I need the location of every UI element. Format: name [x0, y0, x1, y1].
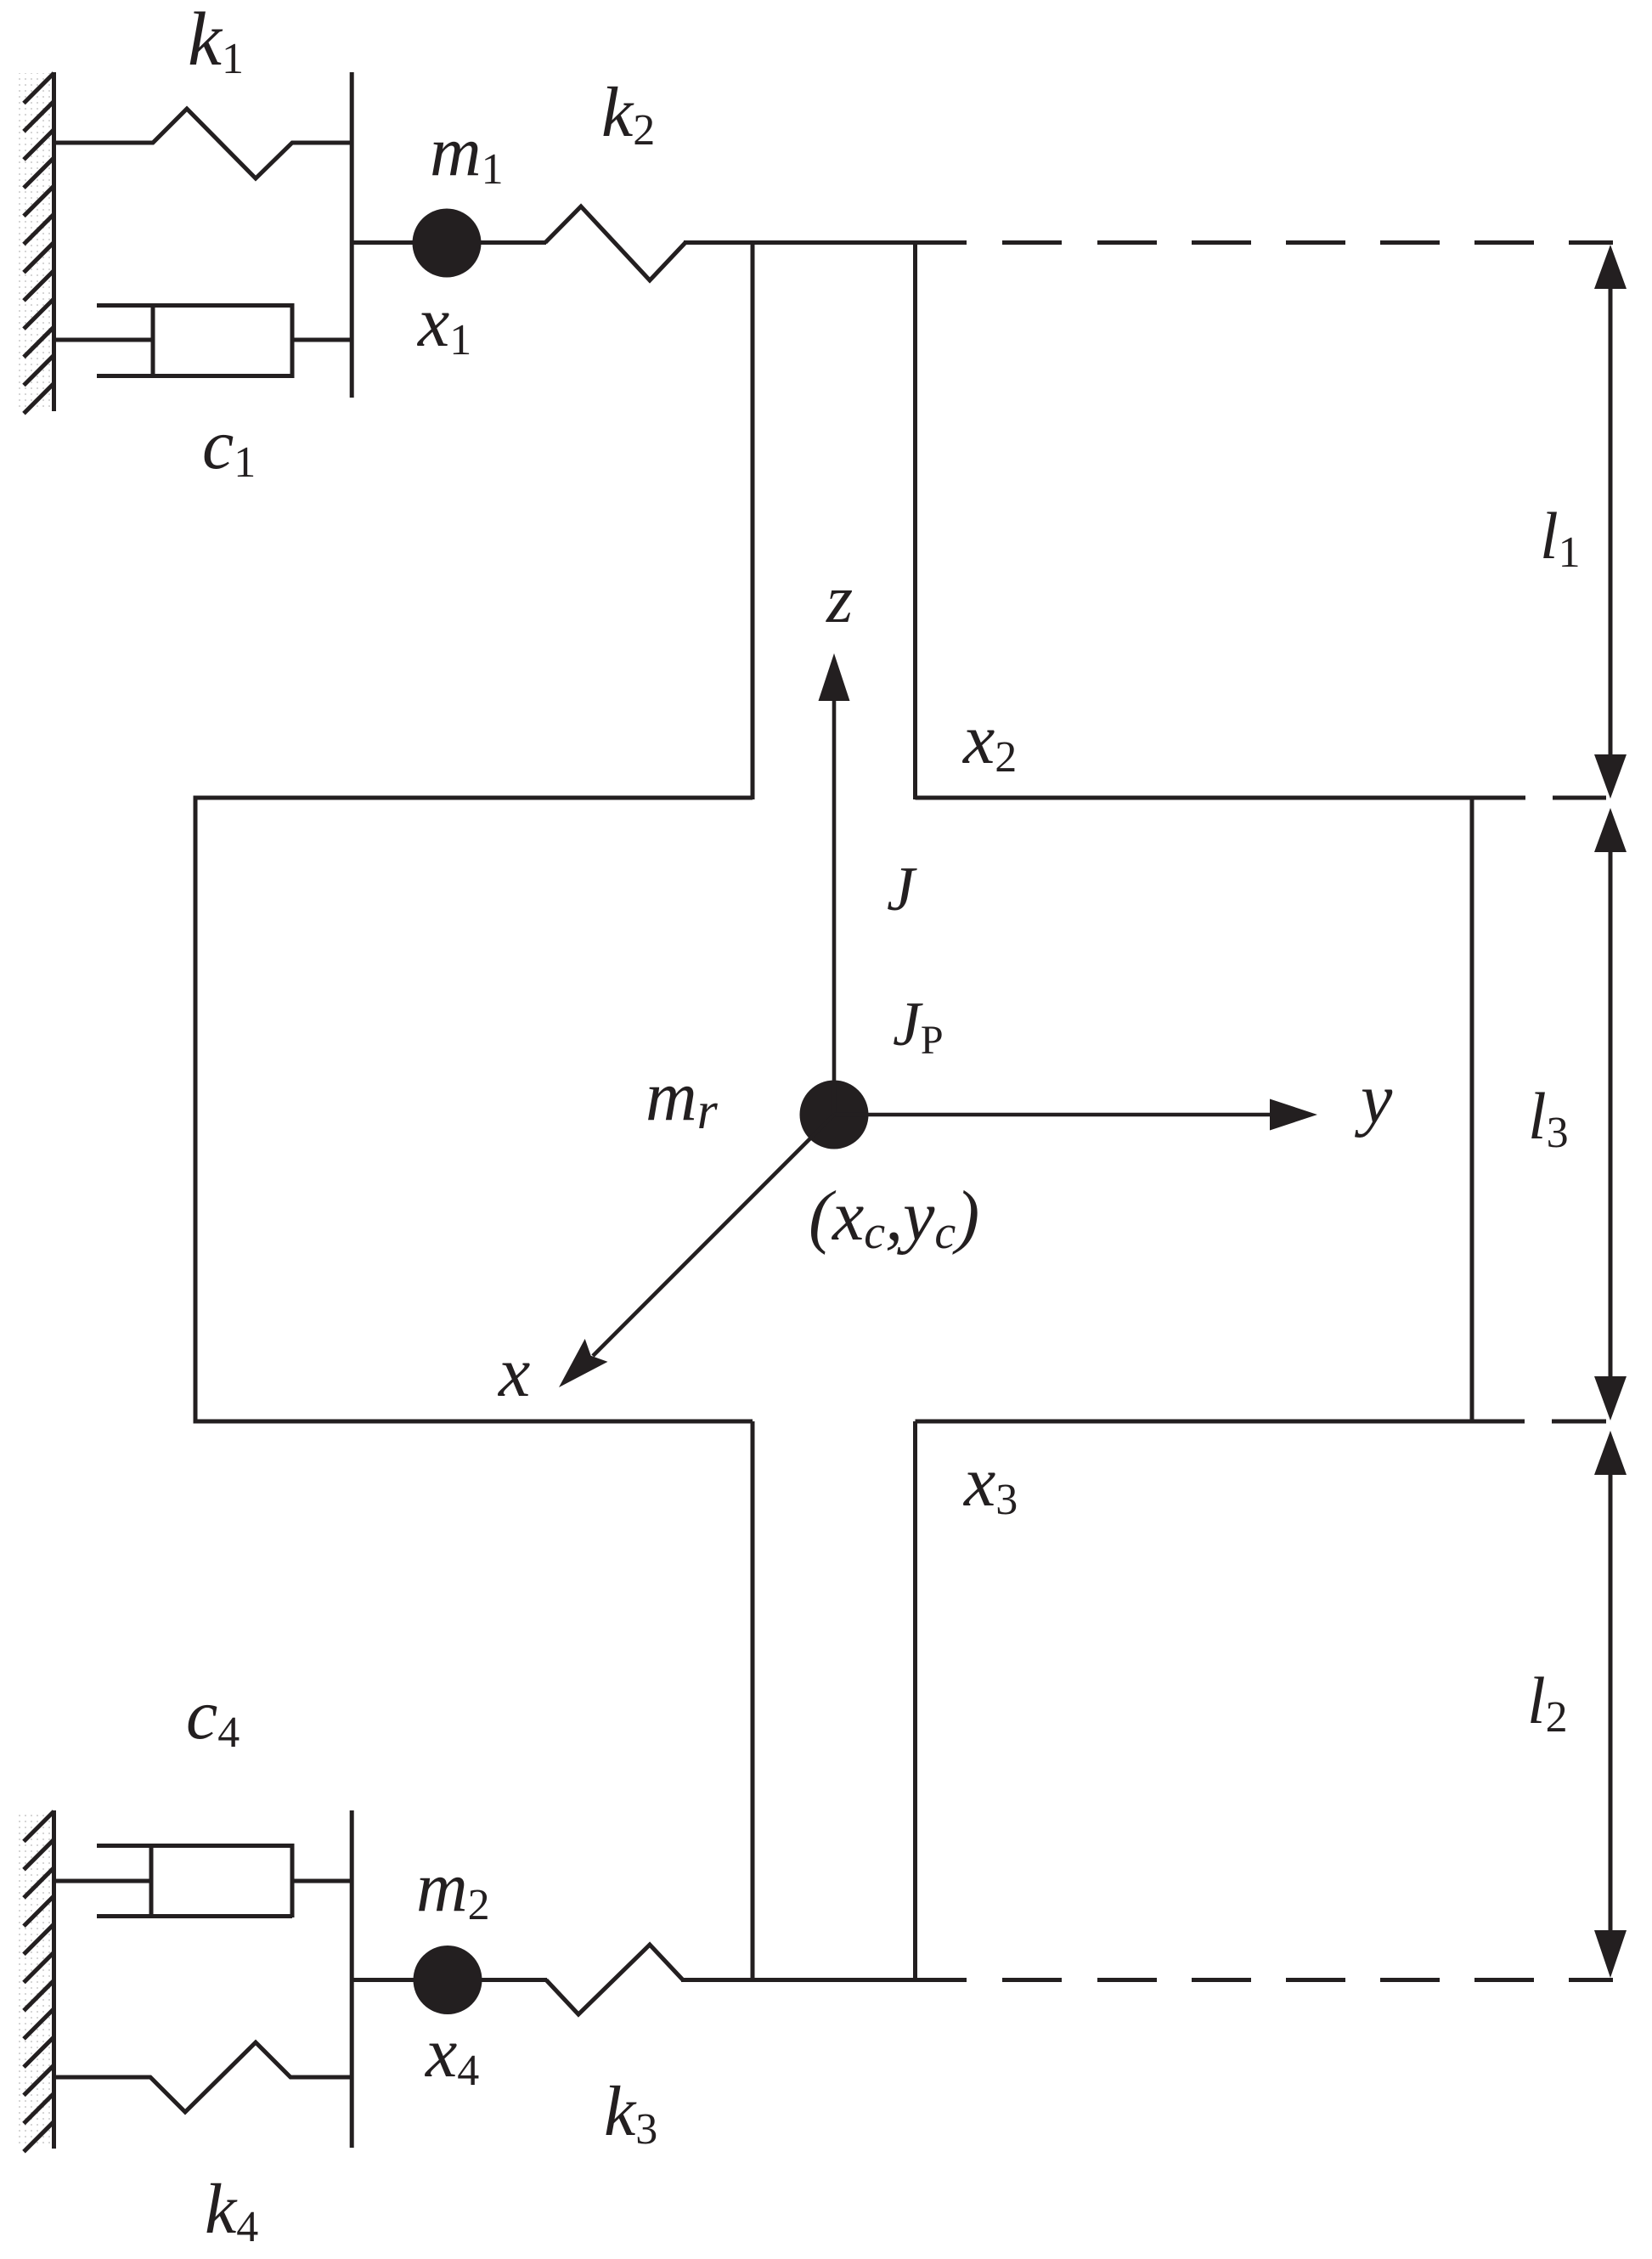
node centre of mass (xc,yc)	[800, 1081, 869, 1149]
wire m2 to k3	[481, 1978, 547, 1982]
svg-text:z: z	[826, 562, 853, 637]
wall (top-left ground)	[17, 72, 54, 414]
dimension l1 line with arrows	[1594, 245, 1627, 799]
wire bar to m2	[352, 1978, 414, 1982]
mass m1	[413, 209, 482, 278]
wire bottom frame line	[681, 1978, 967, 1982]
rigid body top edge	[195, 796, 1525, 800]
node bar for m1	[350, 72, 354, 398]
wire top frame line	[684, 240, 967, 245]
rigid body left edge	[194, 796, 198, 1424]
spring k4	[54, 2042, 350, 2112]
damper c1	[54, 303, 352, 378]
axis z arrow	[819, 653, 850, 1115]
shaft upper right line	[913, 243, 917, 800]
wire m1 to k2	[480, 240, 546, 245]
dashed reference line (bottom)	[1002, 1978, 1613, 1982]
svg-text:x: x	[497, 1333, 530, 1412]
spring k2	[545, 206, 685, 280]
shaft upper left line	[751, 243, 755, 800]
dashed reference line (top)	[1002, 240, 1613, 245]
extension dash at l3/l2 boundary	[1552, 1420, 1606, 1424]
spring k3	[546, 1945, 683, 2014]
node bar for m2	[350, 1810, 354, 2148]
dimension l2 line with arrows	[1594, 1431, 1627, 1978]
svg-text:J: J	[887, 855, 917, 924]
wire bar to m1	[352, 240, 414, 245]
rigid body bottom edge	[195, 1420, 1525, 1424]
dimension l3 line with arrows	[1594, 808, 1627, 1420]
shaft lower left line	[751, 1421, 755, 1980]
wall (bottom-left ground)	[17, 1810, 54, 2152]
axis x arrow	[559, 1115, 834, 1387]
rigid body right edge	[1470, 798, 1474, 1421]
spring k1	[54, 109, 350, 178]
axis y arrow	[834, 1099, 1317, 1131]
extension dash at l1/l3 boundary	[1553, 796, 1606, 800]
mass m2	[414, 1946, 482, 2014]
shaft lower right line	[913, 1421, 917, 1980]
damper c4	[54, 1844, 352, 1917]
